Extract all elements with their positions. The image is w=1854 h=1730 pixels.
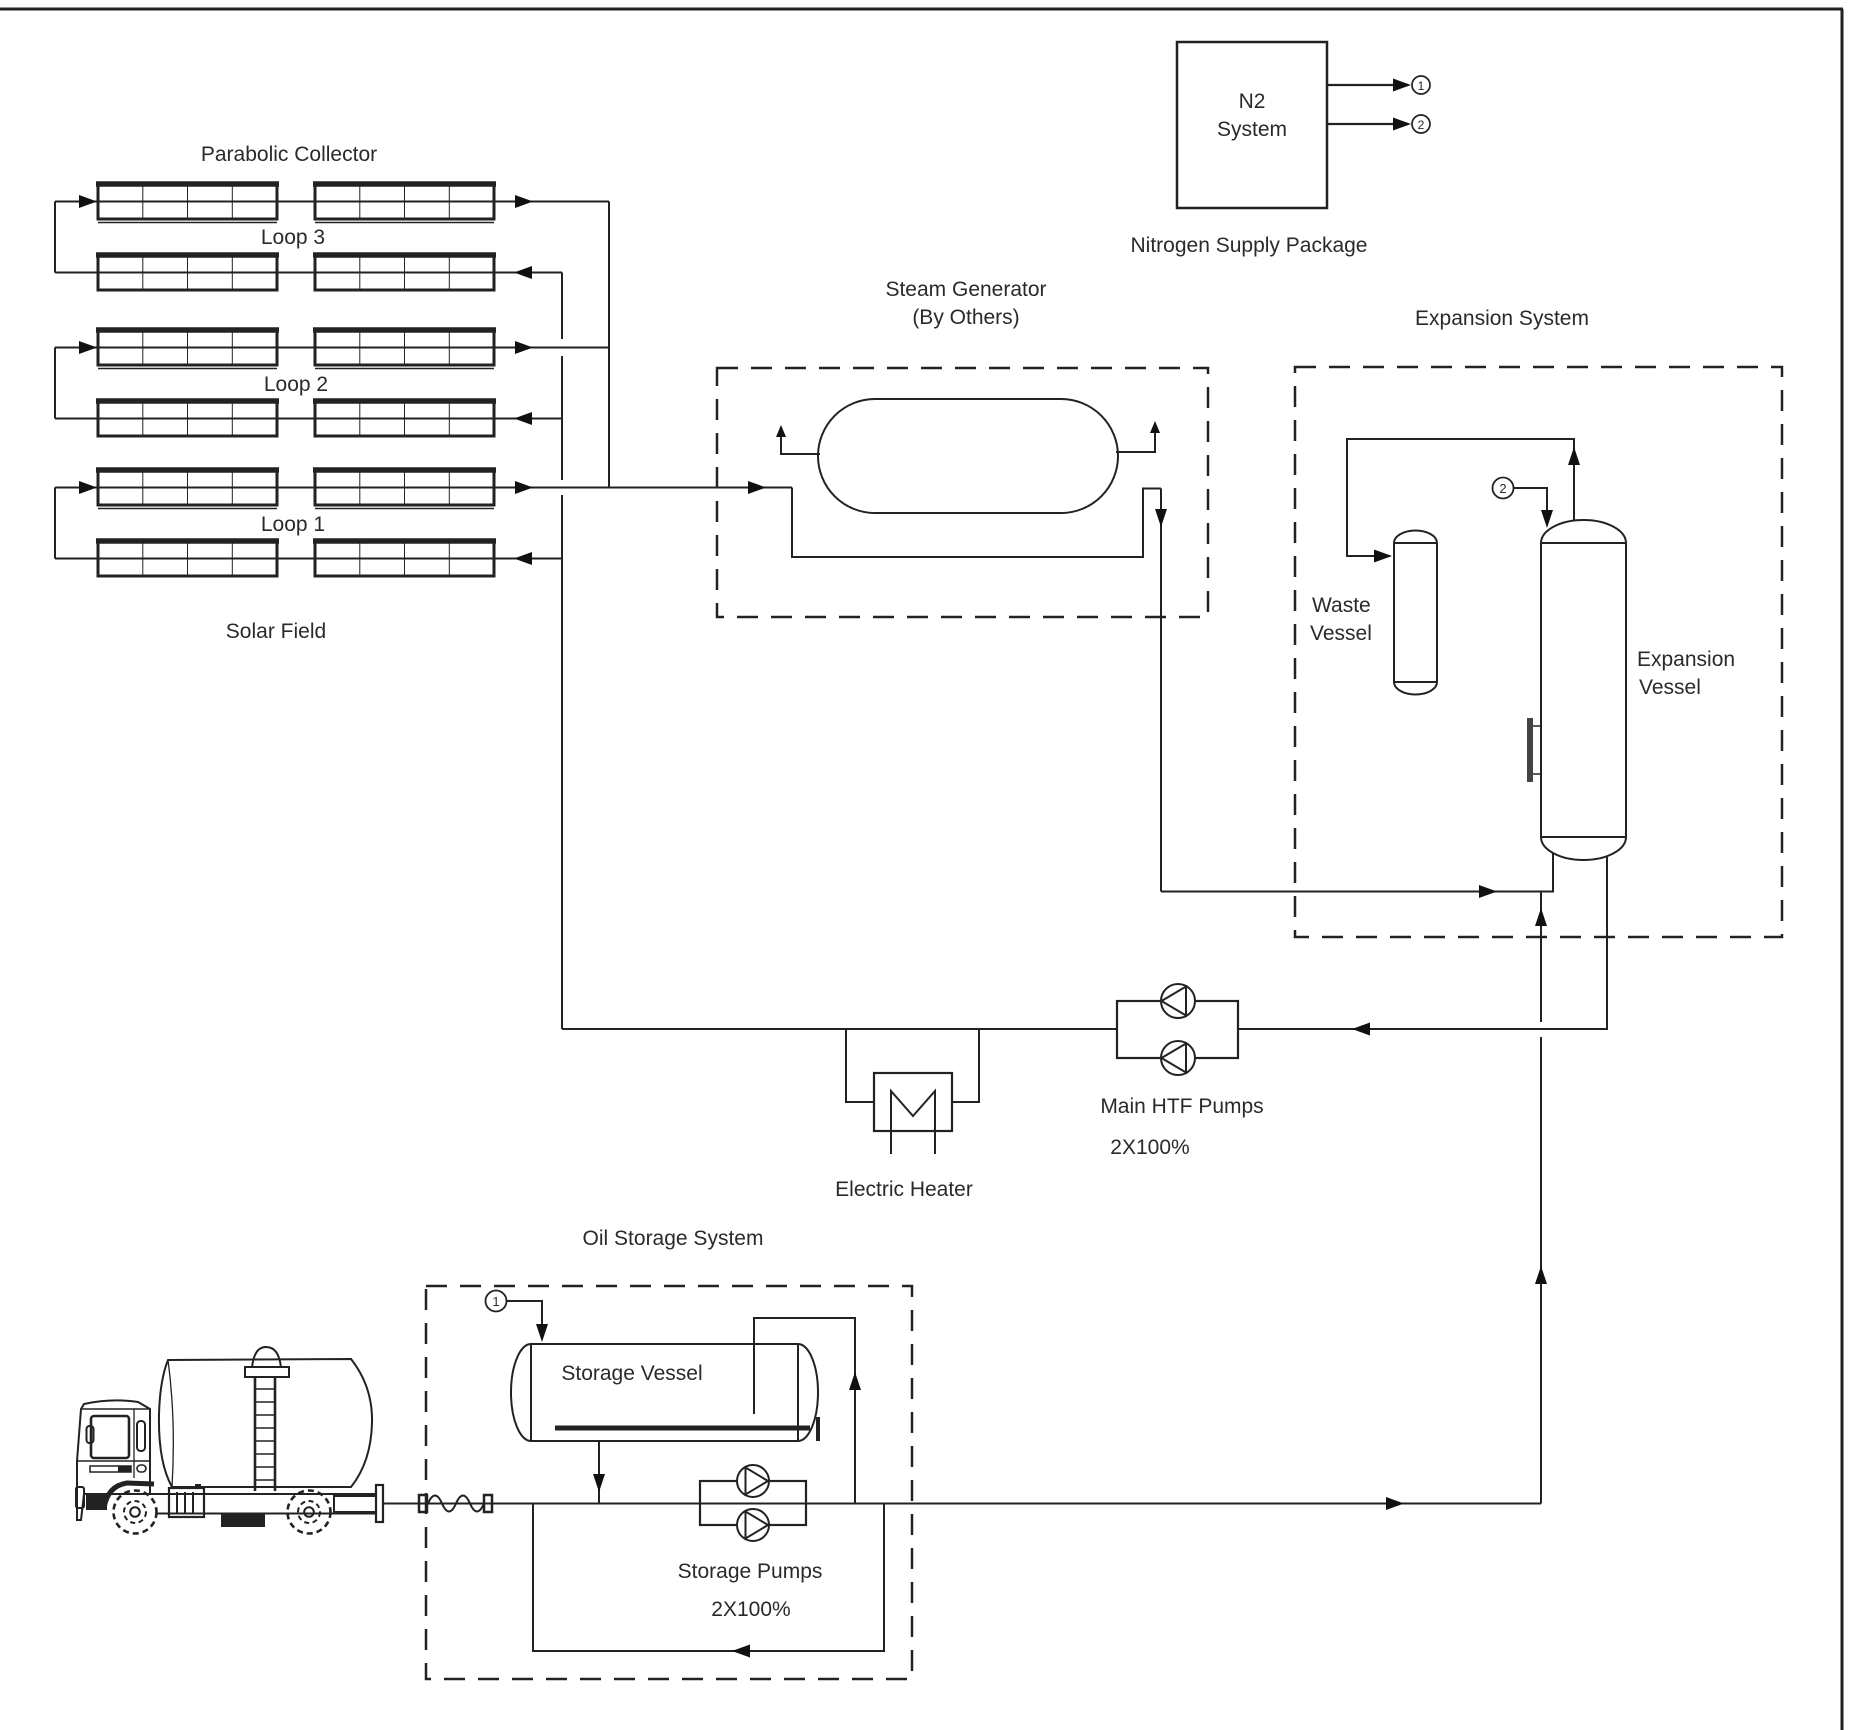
- STEAM GENERATOR: [609, 278, 1208, 892]
- truck cab belt line: [77, 1460, 150, 1462]
- recirculation loop: [533, 1504, 884, 1652]
- dashed boundary expansion system: [1295, 367, 1782, 937]
- arrow left on recirculation: [732, 1645, 750, 1658]
- arrow into expansion vessel inlet: [1479, 885, 1497, 898]
- wire supply header: [608, 202, 610, 488]
- expansion vessel: [1541, 520, 1626, 860]
- wire return header: [561, 273, 563, 340]
- truck manhole dome: [252, 1347, 281, 1368]
- steam drum right nozzle: [1116, 424, 1155, 452]
- truck drawbar: [334, 1496, 376, 1512]
- svg-text:2X100%: 2X100%: [711, 1598, 790, 1621]
- wire N2 line to storage vessel: [507, 1301, 543, 1338]
- wire loop3 left riser: [54, 202, 56, 273]
- level gauge on expansion vessel: [1527, 718, 1541, 782]
- truck grille oval: [137, 1465, 146, 1472]
- arrow loop2 inlet: [79, 341, 97, 354]
- page border frame top: [0, 8, 1843, 11]
- arrow N2 tap 1: [1393, 79, 1411, 92]
- wire N2 tap 2: [1327, 123, 1408, 125]
- arrow steam out left: [776, 425, 786, 437]
- svg-text:Loop 2: Loop 2: [264, 373, 328, 396]
- svg-text:1: 1: [492, 1294, 499, 1309]
- collector row L3B (loop 3 bottom): [55, 255, 562, 290]
- arrow loop3 return: [514, 266, 532, 279]
- truck fuel tank hatched: [221, 1514, 265, 1527]
- arrow steam out right: [1150, 421, 1160, 433]
- svg-text:Waste: Waste: [1312, 594, 1371, 617]
- truck grille bar: [90, 1466, 131, 1472]
- wire return bottom run to pumps: [562, 1028, 1117, 1030]
- OIL STORAGE: [383, 1227, 1541, 1679]
- dashed boundary oil storage system: [426, 1286, 912, 1679]
- waste vessel: [1394, 531, 1437, 695]
- svg-text:Storage Vessel: Storage Vessel: [561, 1362, 702, 1385]
- arrow N2 into storage vessel: [536, 1324, 548, 1342]
- svg-text:Expansion: Expansion: [1637, 648, 1735, 671]
- storage pumps bypass box: [700, 1481, 806, 1525]
- wire storage riser up to expansion inlet: [1540, 892, 1542, 1023]
- collector row L2B (loop 2 bottom): [55, 401, 562, 436]
- truck ladder: [255, 1377, 275, 1491]
- svg-text:Vessel: Vessel: [1310, 622, 1372, 645]
- svg-text:Main HTF Pumps: Main HTF Pumps: [1100, 1095, 1263, 1118]
- wire solar supply to steam generator: [609, 487, 792, 489]
- collector row L1B (loop 1 bottom): [55, 541, 562, 576]
- truck cab roof line: [81, 1408, 150, 1410]
- N2 system box: [1177, 42, 1327, 208]
- arrow storage riser upper: [1535, 908, 1547, 926]
- electric heater bypass stubs: [846, 1029, 874, 1102]
- storage vessel: [511, 1344, 818, 1441]
- truck chassis rail: [150, 1494, 376, 1514]
- pump P1 (main HTF pump top): [1161, 984, 1195, 1018]
- storage vessel outlet: [598, 1441, 600, 1504]
- wire N2 tap 1: [1327, 84, 1408, 86]
- svg-text:Electric Heater: Electric Heater: [835, 1178, 973, 1201]
- truck front fender: [104, 1483, 154, 1509]
- svg-text:(By Others): (By Others): [912, 306, 1019, 329]
- arrow loop2 outlet: [515, 341, 533, 354]
- svg-text:Solar Field: Solar Field: [226, 620, 326, 643]
- EXPANSION SYSTEM: [1161, 307, 1782, 1504]
- wire vessel vent to waste vessel: [1347, 439, 1574, 556]
- arrow toward pumps: [1352, 1023, 1370, 1036]
- collector row L2A (loop 2 top): [55, 330, 609, 369]
- svg-text:Vessel: Vessel: [1639, 676, 1701, 699]
- arrow down on vessel outlet: [593, 1474, 605, 1492]
- truck unloading main line: [383, 1503, 1541, 1505]
- svg-text:Oil Storage System: Oil Storage System: [583, 1227, 764, 1250]
- collector row L1A (loop 1 top): [55, 470, 609, 509]
- hose fitting left: [419, 1495, 427, 1512]
- svg-text:2: 2: [1418, 118, 1425, 132]
- arrow loop3 outlet: [515, 195, 533, 208]
- wire expansion vessel outlet (bottom right nozzle): [1238, 856, 1607, 1029]
- truck windshield: [91, 1416, 129, 1458]
- arrow storage riser mid: [1535, 1266, 1547, 1284]
- svg-text:Parabolic Collector: Parabolic Collector: [201, 143, 377, 166]
- truck tank body: [159, 1359, 372, 1487]
- truck front step: [76, 1487, 84, 1508]
- node circle 2: [1412, 115, 1430, 133]
- arrow loop3 inlet: [79, 195, 97, 208]
- page border frame right: [1841, 9, 1844, 1730]
- dashed boundary steam generator package: [717, 368, 1208, 617]
- PUMPS + HEATER: [835, 984, 1264, 1201]
- svg-text:1: 1: [1418, 79, 1425, 93]
- pump P3 (storage pump top): [737, 1465, 769, 1497]
- arrow to expansion riser: [1386, 1497, 1404, 1510]
- wire loop1 left riser: [54, 488, 56, 559]
- arrow up on dip pipe riser: [849, 1372, 861, 1390]
- wire expansion vessel inlet (bottom left nozzle): [1161, 853, 1553, 892]
- truck door seam: [133, 1409, 135, 1478]
- truck manhole flange: [245, 1367, 289, 1377]
- truck door window: [137, 1421, 145, 1451]
- steam drum vessel: [818, 399, 1118, 513]
- arrow loop2 return: [514, 412, 532, 425]
- svg-text:Storage Pumps: Storage Pumps: [678, 1560, 823, 1583]
- dip pipe return into vessel: [754, 1318, 855, 1504]
- arrow loop1 return: [514, 552, 532, 565]
- instrument circle 2: [1493, 478, 1514, 499]
- collector row L3A (loop 3 top): [55, 184, 609, 223]
- arrow into waste vessel: [1374, 550, 1392, 563]
- truck battery box: [169, 1488, 204, 1517]
- truck front wheel: [114, 1491, 157, 1534]
- arrow into steam generator: [748, 481, 766, 494]
- truck step grid: [86, 1494, 107, 1510]
- instrument circle 1: [486, 1291, 507, 1312]
- svg-text:Loop 3: Loop 3: [261, 226, 325, 249]
- main HTF pumps bypass box: [1117, 1001, 1238, 1058]
- svg-text:Nitrogen Supply Package: Nitrogen Supply Package: [1131, 234, 1368, 257]
- svg-text:2: 2: [1499, 481, 1506, 496]
- TRUCK: [76, 1347, 383, 1534]
- steam drum left nozzle: [781, 428, 820, 454]
- svg-text:Loop 1: Loop 1: [261, 513, 325, 536]
- truck rear plate: [376, 1485, 383, 1522]
- node circle 1: [1412, 76, 1430, 94]
- truck tank seam: [168, 1360, 173, 1487]
- svg-text:Steam Generator: Steam Generator: [885, 278, 1046, 301]
- HTF U-tube under drum: [792, 488, 1161, 558]
- hose fitting right: [484, 1495, 492, 1512]
- arrow loop1 inlet: [79, 481, 97, 494]
- flexible hose: [428, 1496, 484, 1512]
- arrow N2 tap 2: [1393, 118, 1411, 131]
- truck cab outline: [77, 1400, 150, 1520]
- wire loop2 left riser: [54, 348, 56, 419]
- N2 SYSTEM: [1131, 42, 1430, 257]
- arrow loop1 outlet: [515, 481, 533, 494]
- svg-text:N2: N2: [1239, 90, 1266, 113]
- truck rear wheel: [288, 1491, 331, 1534]
- pump P4 (storage pump bottom): [737, 1509, 769, 1541]
- electric heater element M: [891, 1091, 935, 1154]
- wire steam generator outlet drop: [1160, 489, 1162, 892]
- pump P2 (main HTF pump bottom): [1161, 1041, 1195, 1075]
- electric heater box: [874, 1073, 952, 1131]
- wire N2 line to expansion vessel: [1514, 488, 1548, 524]
- svg-text:2X100%: 2X100%: [1110, 1136, 1189, 1159]
- heater element bar in storage vessel: [555, 1426, 810, 1431]
- truck mirror: [87, 1426, 94, 1443]
- svg-text:Expansion System: Expansion System: [1415, 307, 1589, 330]
- arrow N2 into vessel: [1541, 510, 1553, 528]
- svg-text:System: System: [1217, 118, 1287, 141]
- arrow down on outlet: [1155, 509, 1167, 527]
- arrow up on vent: [1568, 447, 1580, 465]
- SOLAR FIELD: [55, 143, 1117, 1029]
